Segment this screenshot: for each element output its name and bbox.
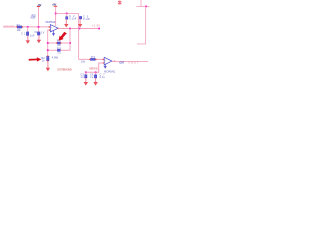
V- arrow U2 xyxy=(104,64,107,68)
wire U2 chain vertical xyxy=(78,29,80,60)
ground under C5 xyxy=(84,78,88,86)
wire to R5 xyxy=(79,58,104,60)
wire cap1 stub xyxy=(66,13,68,16)
label R3 xyxy=(57,40,62,47)
svg-text:MCP6V01: MCP6V01 xyxy=(46,21,57,24)
capacitor C5 xyxy=(85,72,87,78)
resistor R5 xyxy=(89,58,96,60)
label C1 left xyxy=(21,33,26,36)
node junction rail xyxy=(55,13,57,15)
op-amp U2 xyxy=(102,57,115,65)
node junction noninverting xyxy=(38,26,40,28)
label C3 xyxy=(83,15,91,21)
power flag V+ (op-amp) bar xyxy=(54,6,57,7)
capacitor C1 xyxy=(26,32,28,36)
node junction Cf left xyxy=(47,49,49,51)
svg-text:MCP6V01: MCP6V01 xyxy=(104,71,116,74)
node junction cap1 xyxy=(66,13,68,15)
capacitor C4 feedback xyxy=(57,49,60,51)
resistor R3 feedback xyxy=(56,42,62,44)
wire Cf horizontal xyxy=(48,49,70,51)
wire cap2 vertical xyxy=(78,13,80,28)
ground under V1 xyxy=(37,35,41,43)
label VDD node xyxy=(30,15,36,20)
node junction cap2 xyxy=(79,28,81,30)
resistor R2 to ground xyxy=(47,55,49,62)
wire U1 output xyxy=(58,28,99,30)
wire input horizontal xyxy=(3,26,49,28)
label C5 xyxy=(80,74,84,79)
node output end xyxy=(98,28,100,30)
annotation arrow A1 (down-left at U1 output) xyxy=(59,32,67,41)
background xyxy=(0,0,150,93)
svg-text:1uF: 1uF xyxy=(30,35,35,38)
svg-text:+2.5V: +2.5V xyxy=(92,25,101,28)
svg-text:R5: R5 xyxy=(91,56,96,59)
node junction C1 tap xyxy=(27,26,29,28)
ground under R2 xyxy=(46,61,50,71)
net flag cross (top right) xyxy=(118,0,121,4)
svg-text:SYSTEM GND: SYSTEM GND xyxy=(57,68,72,72)
label C4 xyxy=(57,47,62,55)
svg-text:0.1u: 0.1u xyxy=(100,76,106,79)
ground under C6 xyxy=(93,78,97,86)
capacitor C3 xyxy=(79,16,81,19)
svg-text:+5.0V: +5.0V xyxy=(30,16,36,19)
resistor R1 xyxy=(16,26,23,28)
capacitor C6 xyxy=(94,72,96,78)
wire feedback left vertical xyxy=(48,30,50,56)
svg-text:4.99k: 4.99k xyxy=(52,56,59,59)
node junction cap bl xyxy=(85,71,87,73)
annotation arrow A2 (right at R2) xyxy=(29,57,42,61)
label R2 left xyxy=(41,57,45,62)
node junction cap br xyxy=(95,71,97,73)
label C2 xyxy=(69,15,77,20)
node junction feedback top xyxy=(69,28,71,30)
node junction Rf left xyxy=(47,42,49,44)
label C6 xyxy=(90,74,94,79)
power flag V+ (left) bar xyxy=(37,6,40,7)
ground under C1 xyxy=(26,36,30,44)
wire bypass rail xyxy=(56,12,79,14)
svg-text:REF GND: REF GND xyxy=(89,67,98,70)
ground arrow C3 to node xyxy=(78,19,82,27)
svg-text:0.1uF: 0.1uF xyxy=(83,18,91,21)
node junction Rf right xyxy=(69,42,71,44)
wire right loop horizontal xyxy=(136,5,149,7)
wire feedback right vertical xyxy=(69,29,71,51)
wire right loop vertical xyxy=(137,6,146,44)
node junction right loop xyxy=(145,6,147,8)
svg-text:OUT: OUT xyxy=(119,61,124,65)
svg-text:C1: C1 xyxy=(21,33,26,36)
wire source vertical xyxy=(38,7,40,32)
wire U2 inverting loop xyxy=(86,63,103,72)
source V1 xyxy=(37,32,40,35)
wire supply vertical to U1 xyxy=(55,7,57,26)
V- arrow U1 xyxy=(52,31,55,36)
label C7 right xyxy=(100,74,106,79)
op-amp U1 xyxy=(49,25,60,33)
svg-text:1V: 1V xyxy=(41,31,45,34)
wire right loop top stub xyxy=(140,0,142,6)
wire C1 stub xyxy=(27,27,29,32)
ground arrow C2 to node xyxy=(64,19,68,27)
wire Rf horizontal xyxy=(48,42,70,44)
svg-text:0.1uF: 0.1uF xyxy=(69,17,77,20)
capacitor C2 xyxy=(66,17,68,20)
wire U2 output xyxy=(112,61,148,63)
svg-text:C4: C4 xyxy=(57,47,62,50)
